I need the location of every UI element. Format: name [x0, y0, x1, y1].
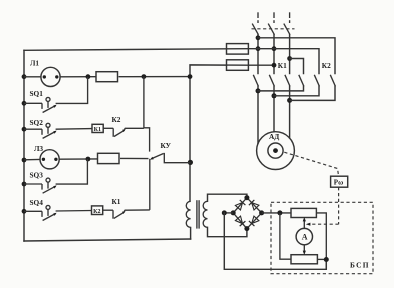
svg-text:Рω: Рω [334, 179, 343, 187]
wire phase A lower to motor [257, 86, 259, 143]
relay coil K2 [92, 206, 103, 215]
svg-text:КУ: КУ [161, 141, 172, 150]
wire secondary top to bridge [208, 194, 247, 201]
wire right branch [316, 213, 326, 269]
node row1 left [22, 74, 27, 79]
transformer core [196, 200, 198, 228]
wire [24, 158, 40, 160]
node right branch [324, 257, 329, 262]
speed sensor Pw [331, 176, 348, 187]
node SQ2 left [22, 127, 27, 132]
diode VD3 [235, 216, 245, 226]
node [222, 210, 227, 215]
contact K2 pole 1 [299, 75, 304, 87]
node row1 right rail [188, 74, 193, 79]
wire top rail to fuse FU1 [24, 49, 227, 51]
contact KU [151, 154, 163, 159]
wire [60, 76, 96, 78]
wire [103, 127, 113, 129]
svg-text:К2: К2 [93, 209, 100, 215]
node SQ4 left [22, 209, 27, 214]
svg-text:SQ2: SQ2 [30, 118, 44, 127]
wire phase C lower to motor [289, 86, 291, 137]
potentiometer RP2 [291, 255, 317, 264]
resistor R1 [96, 72, 118, 82]
wire row4 to KU blade [120, 157, 149, 159]
wire SQ3 right to row4 [56, 159, 88, 184]
svg-text:К1: К1 [112, 197, 121, 206]
contact K2 pole 2 [314, 75, 319, 87]
wire right rail upper [190, 65, 227, 201]
wire secondary bottom to bridge [208, 227, 247, 236]
contact K2 [113, 128, 125, 137]
wire phase A upper [257, 35, 259, 74]
limit switch SQ4 [24, 205, 57, 220]
svg-text:К2: К2 [322, 61, 331, 70]
svg-text:К2: К2 [112, 115, 121, 124]
wiper wire up [303, 219, 305, 228]
wiper wire down [303, 245, 305, 253]
wire [56, 128, 92, 131]
svg-text:SQ4: SQ4 [30, 198, 44, 207]
contact K1 [113, 210, 125, 219]
wire [103, 209, 113, 211]
node bridge left [231, 210, 236, 215]
ammeter A [296, 228, 312, 244]
switch QS blade C [284, 24, 290, 35]
supply stub B [273, 12, 275, 18]
wire [24, 76, 41, 78]
node SQ3 left [22, 182, 27, 187]
wire right rail lower to transformer [190, 228, 192, 240]
svg-text:К1: К1 [278, 61, 287, 70]
wire SQ1 right to row1 [56, 77, 88, 104]
wire [125, 127, 144, 129]
wire KU lower to row6 [149, 159, 151, 210]
wire jog [144, 128, 150, 152]
diode VD1 [235, 200, 245, 210]
limit switch SQ2 [24, 123, 57, 138]
switch QS blade B [268, 24, 274, 35]
transformer secondary winding [203, 201, 207, 227]
wire from row1 down [143, 77, 145, 129]
node bridge top [244, 195, 249, 200]
wire to KU [125, 209, 150, 211]
limit switch SQ3 [24, 178, 57, 193]
wire phase B lower to motor [273, 86, 275, 131]
switch QS linkage [252, 28, 295, 30]
node DC plus [277, 210, 282, 215]
contact K2 pole 3 [330, 75, 335, 87]
wire DC minus loop [224, 213, 326, 269]
wire phase C upper [289, 35, 291, 74]
lamp L3 [40, 150, 59, 169]
svg-text:АД: АД [269, 132, 279, 141]
contact K1 pole C [285, 75, 290, 87]
node bridge bottom [244, 226, 249, 231]
wire [119, 76, 191, 78]
wire left branch [280, 213, 291, 259]
wire phase B upper [273, 35, 275, 74]
contact K1 pole A [253, 75, 258, 87]
node bridge right [259, 210, 264, 215]
limit switch SQ1 [24, 97, 57, 112]
supply stub A [257, 12, 259, 18]
node row1 / SQ1 branch [86, 74, 91, 79]
wire left rail [23, 50, 25, 241]
wire KU to right rail [163, 154, 190, 163]
fuse FU2 [227, 60, 249, 71]
transformer primary winding [186, 201, 190, 227]
wire jumper phase B to K2 pole 2 [248, 49, 319, 74]
wire bottom rail [24, 239, 191, 241]
svg-text:К1: К1 [94, 127, 101, 133]
wire jumper phase A to K2 pole 3 [258, 38, 335, 74]
svg-text:Л1: Л1 [30, 59, 39, 68]
diode VD4 [249, 216, 259, 226]
contact K1 pole B [269, 75, 274, 87]
node SQ1 left [22, 101, 27, 106]
wire bridge left out [224, 212, 233, 214]
fuse FU1 [227, 44, 249, 55]
wire [59, 158, 97, 160]
dashed link motor to Pw [284, 152, 338, 176]
node right rail [188, 160, 193, 165]
dashed link Pw to BSP [338, 187, 340, 224]
supply stub C [289, 12, 291, 18]
bridge frame [233, 198, 261, 229]
node row4 / SQ3 branch [86, 157, 91, 162]
resistor R2 [98, 153, 120, 163]
svg-text:А: А [302, 233, 308, 242]
diode VD2 [249, 200, 259, 210]
svg-text:SQ3: SQ3 [30, 170, 44, 179]
wire K2 pole 2 out [274, 86, 319, 95]
relay coil K1 [92, 124, 103, 132]
motor AD [257, 132, 295, 170]
lamp L1 [41, 67, 60, 86]
node row1 / KU branch [142, 74, 147, 79]
svg-text:SQ1: SQ1 [30, 89, 44, 98]
potentiometer RP1 [291, 208, 316, 217]
svg-text:БСП: БСП [350, 260, 370, 269]
block BSP dashed box [271, 202, 373, 273]
wire K2 pole 3 out [290, 86, 335, 100]
wire [56, 210, 92, 213]
switch QS blade A [252, 24, 258, 35]
wire fuse FU2 to phase B [248, 64, 274, 66]
wire RP2 right [317, 258, 326, 260]
wire K2 pole 1 out [258, 86, 304, 91]
node row4 left [22, 158, 27, 163]
wire jumper phase C to K2 pole 1 [290, 59, 304, 74]
svg-text:Л3: Л3 [34, 144, 43, 153]
wire bridge right out [262, 212, 291, 214]
